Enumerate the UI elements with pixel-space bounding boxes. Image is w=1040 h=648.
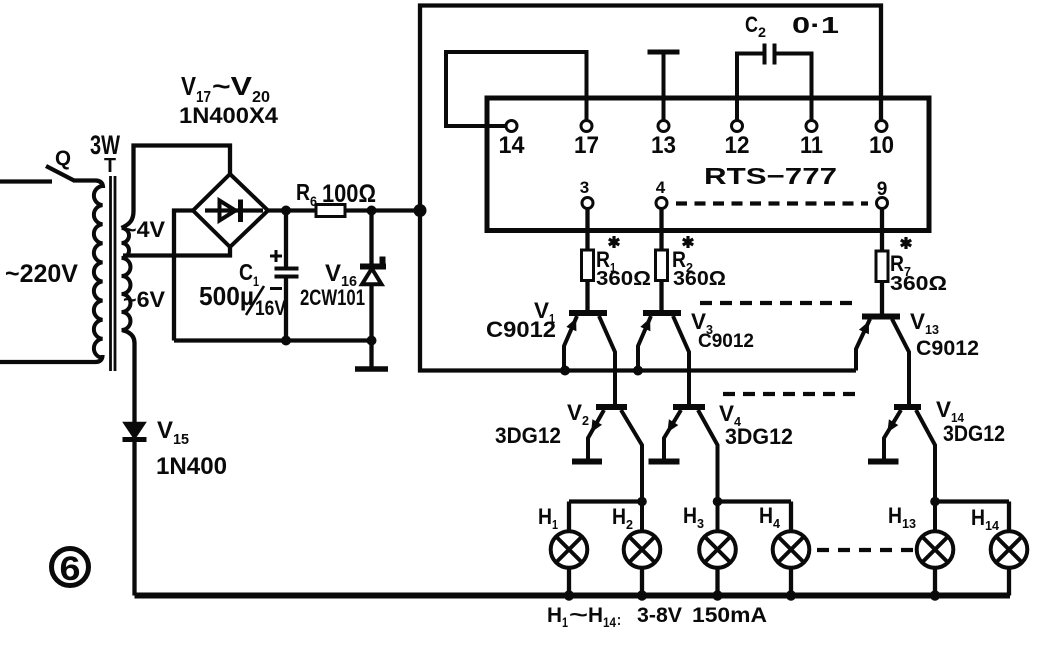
svg-text:~4V: ~4V <box>123 217 165 242</box>
svg-text:Q: Q <box>55 147 71 170</box>
svg-text:H: H <box>759 503 773 528</box>
svg-text:~V: ~V <box>212 71 253 101</box>
svg-text:V: V <box>567 400 582 425</box>
svg-text:11: 11 <box>800 132 823 159</box>
svg-text:14: 14 <box>985 518 1000 533</box>
svg-text:V: V <box>936 397 951 422</box>
svg-text:500µ: 500µ <box>199 281 254 311</box>
svg-text:V: V <box>910 309 925 334</box>
svg-text:3DG12: 3DG12 <box>725 424 793 449</box>
svg-text:1N400X4: 1N400X4 <box>179 103 279 128</box>
svg-text:4: 4 <box>773 516 781 531</box>
svg-text:3: 3 <box>697 516 704 531</box>
svg-text:C: C <box>745 12 758 37</box>
svg-text:16V: 16V <box>255 297 286 320</box>
svg-text:C9012: C9012 <box>486 317 556 342</box>
svg-text:3: 3 <box>580 178 589 197</box>
svg-text:9: 9 <box>877 179 888 200</box>
svg-text:H: H <box>888 503 902 528</box>
svg-text:100Ω: 100Ω <box>322 180 376 208</box>
svg-text:6: 6 <box>60 550 81 588</box>
svg-text:150mA: 150mA <box>692 604 767 627</box>
svg-text:10: 10 <box>869 132 894 159</box>
svg-text:H: H <box>588 604 603 627</box>
svg-text:3DG12: 3DG12 <box>943 421 1005 446</box>
svg-text:V: V <box>157 417 173 444</box>
svg-text:360Ω: 360Ω <box>596 268 651 290</box>
svg-text:V: V <box>719 401 734 426</box>
svg-text:0·1: 0·1 <box>792 12 839 38</box>
svg-text:360Ω: 360Ω <box>890 273 947 295</box>
svg-text:~220V: ~220V <box>5 260 78 288</box>
svg-text:H: H <box>612 504 626 529</box>
svg-text:3-8V: 3-8V <box>637 604 682 627</box>
svg-text:12: 12 <box>725 132 750 159</box>
svg-text:14: 14 <box>499 132 526 159</box>
svg-text:14: 14 <box>603 614 616 630</box>
svg-text:13: 13 <box>651 132 676 159</box>
svg-text:T: T <box>104 155 116 177</box>
svg-text:13: 13 <box>925 322 939 337</box>
svg-text:2: 2 <box>758 24 766 40</box>
svg-text:V: V <box>325 260 341 287</box>
svg-text:H: H <box>547 604 562 627</box>
svg-text:H: H <box>971 505 985 530</box>
svg-text:C9012: C9012 <box>916 337 979 360</box>
svg-text:17: 17 <box>574 132 599 159</box>
svg-text:~: ~ <box>569 604 588 627</box>
svg-text:1: 1 <box>552 517 558 532</box>
svg-text:2CW101: 2CW101 <box>300 285 365 310</box>
svg-text:1N400: 1N400 <box>156 453 227 480</box>
svg-text:H: H <box>538 504 552 529</box>
svg-text:RTS−777: RTS−777 <box>704 163 837 189</box>
svg-text:V: V <box>181 71 197 101</box>
svg-text::: : <box>617 612 621 629</box>
svg-text:6: 6 <box>310 193 317 209</box>
svg-text:360Ω: 360Ω <box>673 268 726 290</box>
svg-text:H: H <box>683 503 697 528</box>
svg-text:3DG12: 3DG12 <box>495 423 561 448</box>
svg-text:13: 13 <box>902 516 916 531</box>
svg-text:15: 15 <box>173 431 189 448</box>
svg-text:R: R <box>296 179 310 205</box>
svg-text:C9012: C9012 <box>698 331 754 352</box>
svg-text:4: 4 <box>656 178 666 197</box>
svg-text:~6V: ~6V <box>123 287 165 312</box>
svg-text:1: 1 <box>562 614 568 630</box>
svg-text:2: 2 <box>626 517 633 532</box>
svg-text:2: 2 <box>582 413 589 428</box>
